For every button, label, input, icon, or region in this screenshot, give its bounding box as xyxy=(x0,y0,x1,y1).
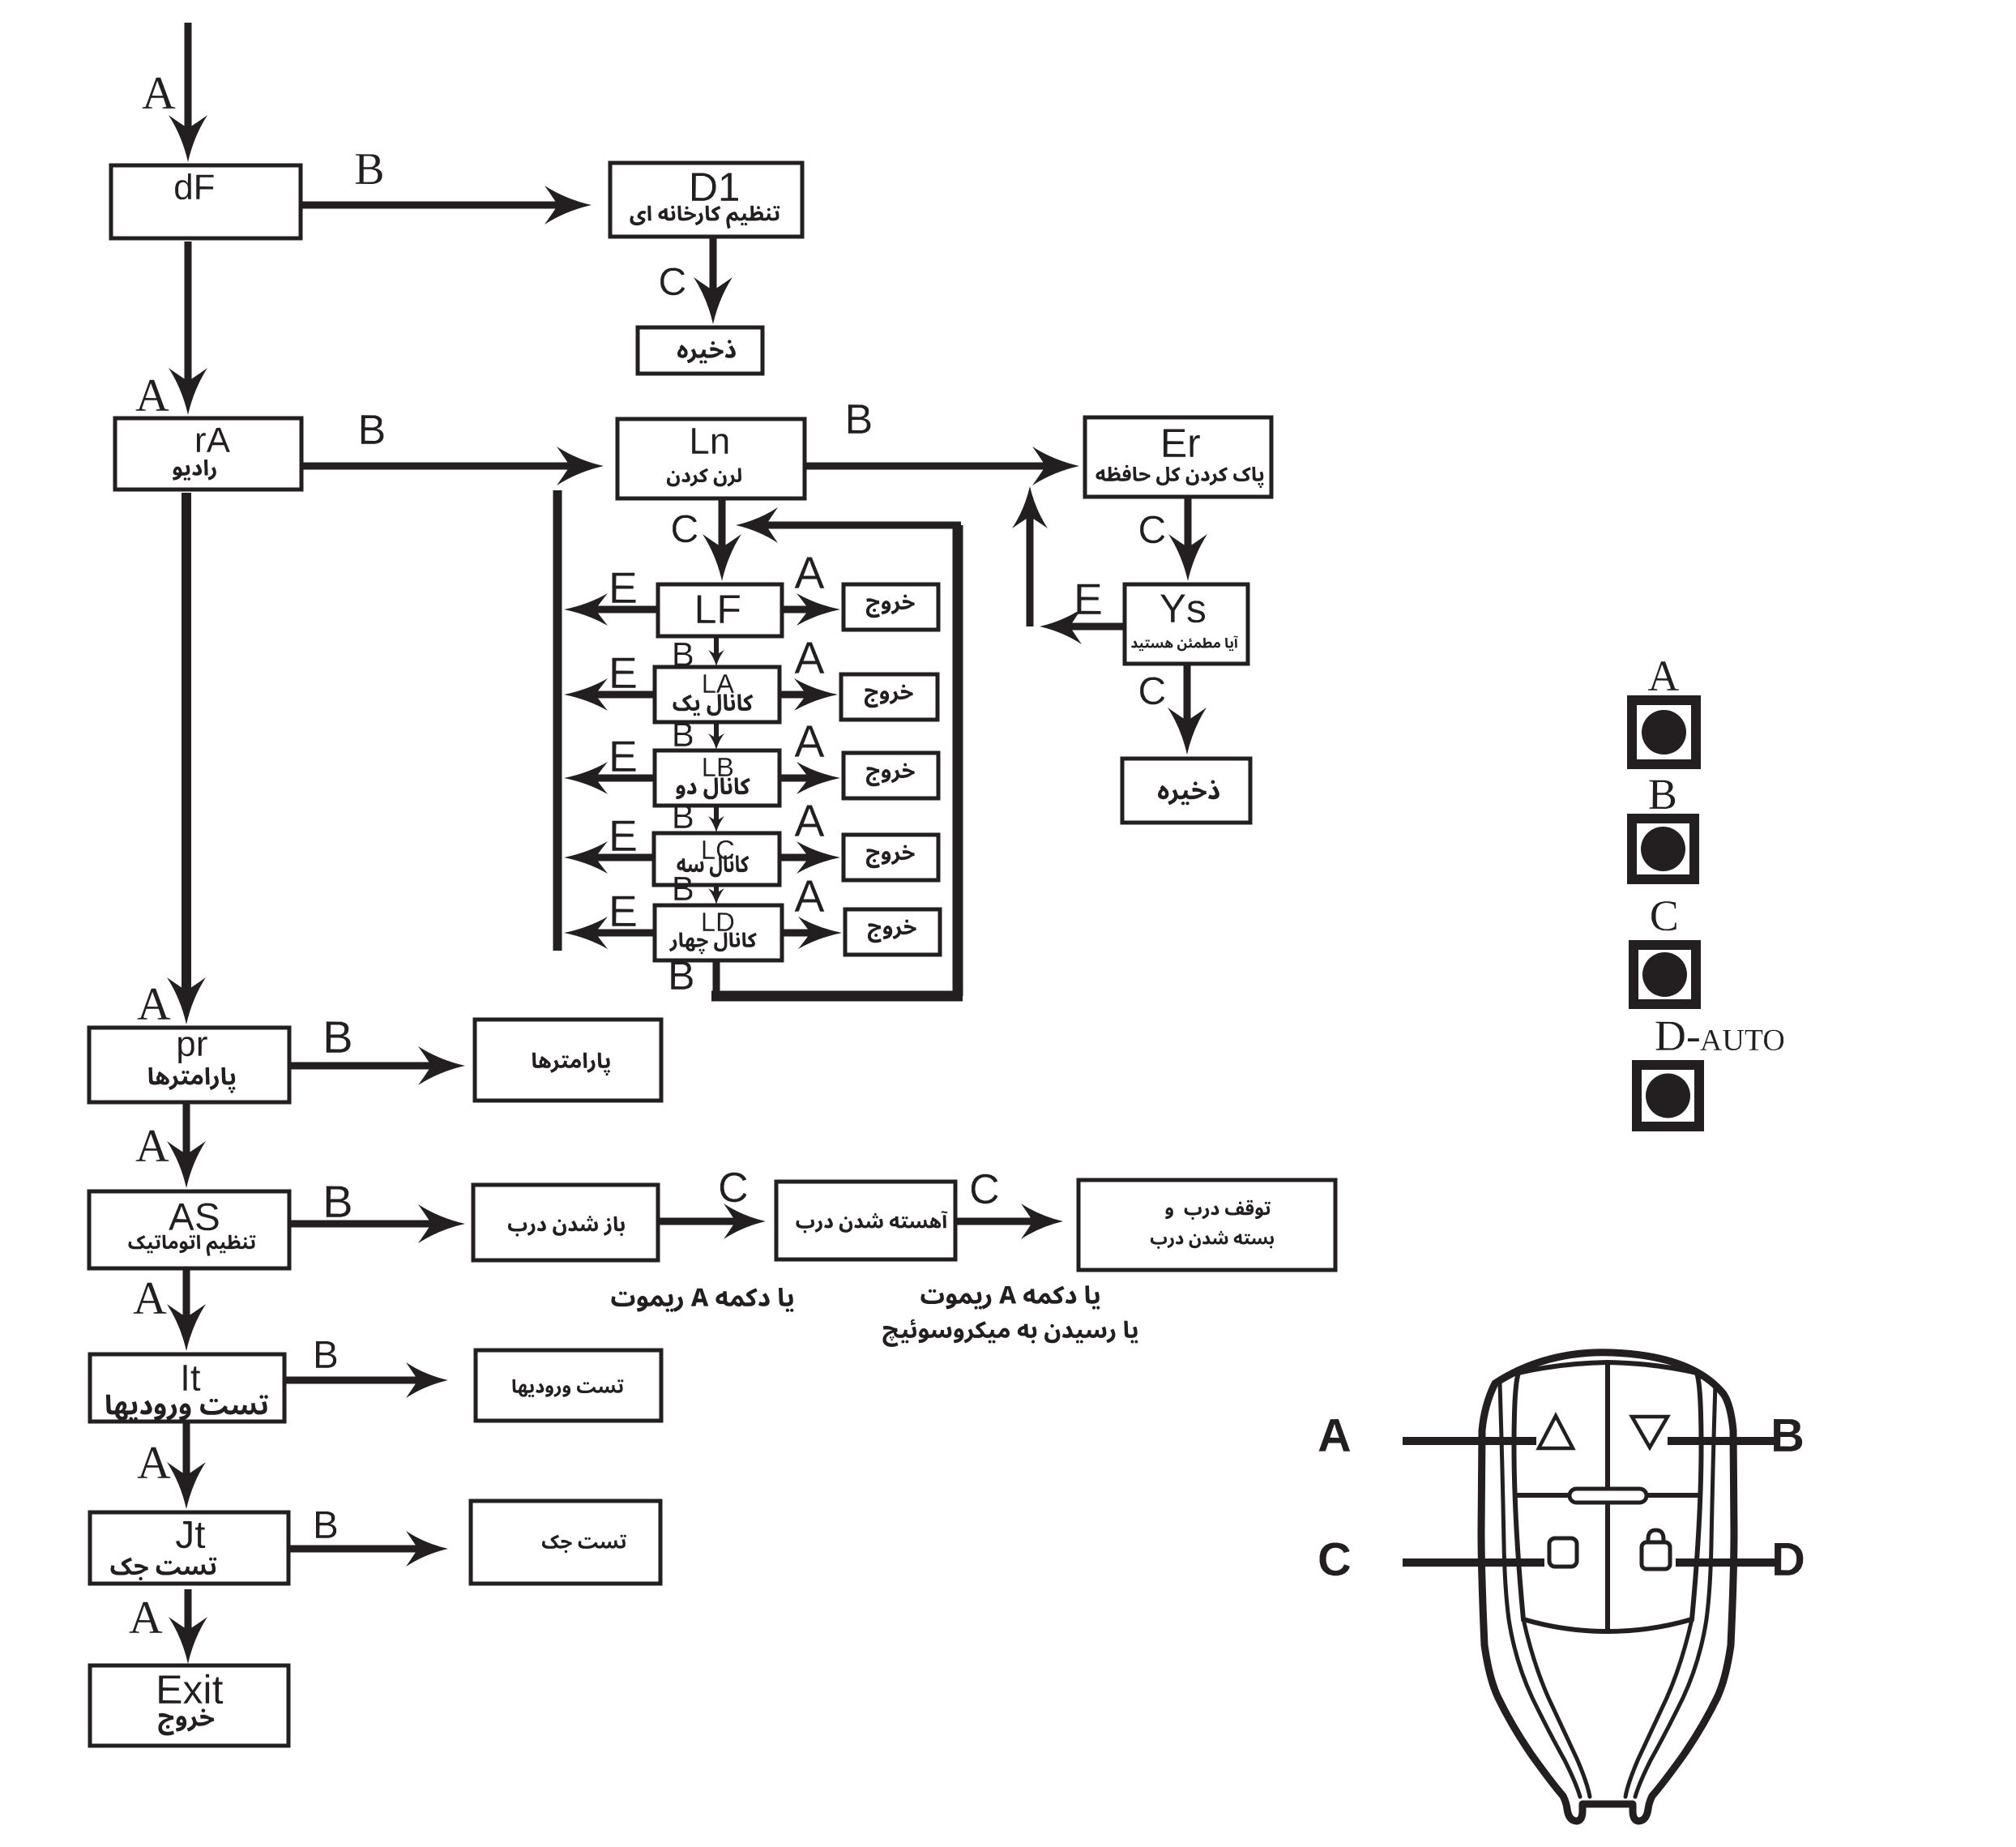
box LD xyxy=(655,905,782,960)
text AS farsi تنظیم اتوماتیک xyxy=(129,1235,256,1256)
wire B-loop bottom horizontal line xyxy=(711,991,963,1002)
label A pr->AS xyxy=(136,1131,169,1161)
remote label B xyxy=(1774,1419,1802,1452)
arrow Ln->Er (B) xyxy=(805,447,1079,485)
label A xyxy=(1648,661,1679,690)
text It xyxy=(184,1365,201,1391)
text open farsi باز شدن درب xyxy=(508,1216,625,1237)
text Jt farsi تست جک xyxy=(111,1558,217,1580)
arrow pr->AS (A) xyxy=(167,1102,206,1188)
text stop farsi line1 توقف درب و xyxy=(1165,1200,1271,1220)
label B LD loop xyxy=(671,962,692,990)
box LF xyxy=(658,584,782,636)
arrow start->dF (A) xyxy=(169,23,207,162)
box AS xyxy=(89,1191,289,1268)
remote button A triangle up xyxy=(1539,1416,1573,1448)
box Exit xyxy=(90,1665,288,1746)
box Ys xyxy=(1125,584,1248,664)
arrow AS->It (A) xyxy=(167,1268,206,1351)
remote label C xyxy=(1320,1543,1350,1576)
text save1 farsi ذخیره xyxy=(677,340,736,363)
text kharooj4 farsi خروج xyxy=(866,845,915,869)
label E LF xyxy=(613,573,636,603)
text LF xyxy=(698,596,740,623)
label B LA->LB xyxy=(675,723,693,746)
arrow LA A->kharooj xyxy=(779,678,838,711)
text AS xyxy=(169,1204,218,1231)
remote button pad xyxy=(1514,1362,1701,1631)
text LA farsi کانال یک xyxy=(673,695,754,716)
label B pr->params xyxy=(327,1022,351,1053)
button dot B xyxy=(1641,827,1685,871)
text jack farsi تست جک xyxy=(542,1535,626,1554)
box stop توقف درب xyxy=(1078,1180,1335,1270)
text pr xyxy=(178,1037,207,1063)
arrow LF A->kharooj xyxy=(782,593,840,626)
box save2 ذخیره xyxy=(1122,759,1250,823)
text Exit farsi خروج xyxy=(159,1708,215,1735)
wire right B-loop vertical line xyxy=(953,525,963,996)
text Exit xyxy=(159,1674,223,1704)
arrow dF->rA (A) xyxy=(169,242,207,415)
box pr xyxy=(89,1028,289,1102)
box Jt xyxy=(90,1512,288,1584)
arrow rA->pr (A) xyxy=(167,493,206,1024)
box save1 ذخیره xyxy=(638,327,762,374)
text save2 farsi ذخیره xyxy=(1158,780,1219,806)
label A LA xyxy=(795,643,825,673)
text Ys xyxy=(1160,595,1205,623)
caption2a farsi یا دکمه A ریموت xyxy=(921,1285,1100,1309)
box inputs تست ورودیها xyxy=(476,1350,661,1421)
box kharooj3 xyxy=(844,753,938,798)
arrow LD A->kharooj xyxy=(782,917,842,949)
arrow pr->params (B) xyxy=(289,1046,465,1085)
label A dF->rA xyxy=(136,380,169,411)
label B LB->LC xyxy=(675,805,693,828)
text rA xyxy=(197,428,230,452)
button dot A xyxy=(1642,710,1686,755)
label A LD xyxy=(795,881,825,912)
arrow LC E->collector xyxy=(564,841,654,874)
text kharooj5 farsi خروج xyxy=(868,920,916,943)
arrow LB->LC (B) small xyxy=(714,807,719,822)
label B Ln->Er xyxy=(848,404,871,434)
text D1 xyxy=(692,173,738,201)
box LC xyxy=(654,833,779,885)
caption2b farsi یا رسیدن به میکروسوئیچ xyxy=(883,1319,1138,1347)
label A LF xyxy=(795,558,825,588)
text kharooj2 farsi خروج xyxy=(865,685,913,708)
text inputs farsi تست ورودیها xyxy=(513,1379,624,1397)
arrow LC A->kharooj xyxy=(779,841,840,874)
text Ln xyxy=(692,428,728,454)
arrow Er->Ys (C) xyxy=(1168,497,1207,581)
text LB xyxy=(704,758,733,776)
text LC farsi کانال سه xyxy=(677,856,750,878)
arrow AS->open (B) xyxy=(289,1204,465,1243)
box jack تست جک xyxy=(471,1501,660,1584)
arrow LF E->collector xyxy=(564,593,658,626)
button square A xyxy=(1632,700,1696,764)
remote label A xyxy=(1319,1419,1351,1452)
text params farsi پارامترها xyxy=(532,1053,610,1076)
text Ln farsi لرن کردن xyxy=(667,468,741,487)
box params پارامترها xyxy=(475,1020,661,1101)
button square B xyxy=(1632,819,1694,879)
text slow farsi آهسته شدن درب xyxy=(797,1211,948,1233)
arrow LA->LB (B) small xyxy=(714,724,719,739)
box kharooj1 xyxy=(844,584,938,630)
box kharooj4 xyxy=(844,835,938,880)
text LA xyxy=(704,674,734,693)
label A top xyxy=(143,78,176,109)
arrow D1->save (C) xyxy=(694,237,733,324)
text LD farsi کانال چهار xyxy=(669,933,757,955)
arrow It->inputs (B) xyxy=(284,1362,448,1398)
text LB farsi کانال دو xyxy=(676,778,750,800)
box kharooj2 xyxy=(841,674,938,720)
remote callout line A xyxy=(1403,1437,1536,1445)
box LA xyxy=(655,667,779,722)
arrow rA->Ln (B) xyxy=(301,447,604,485)
label B Jt->jack xyxy=(316,1511,336,1538)
box slow آهسته شدن درب xyxy=(776,1182,955,1259)
arrow loop->C junction xyxy=(736,507,961,543)
text pr farsi پارامترها xyxy=(149,1067,236,1093)
remote button D lock xyxy=(1642,1542,1670,1569)
arrow LC->LD (B) small xyxy=(714,887,719,894)
text Ys farsi آیا مطمئن هستید xyxy=(1131,636,1238,652)
label A LC xyxy=(795,806,825,836)
text D1 farsi تنظیم کارخانه ای xyxy=(630,206,780,229)
label C Er->Ys xyxy=(1140,516,1164,544)
arrow LA E->collector xyxy=(564,678,655,711)
arrow Ys->save (C) xyxy=(1168,664,1207,755)
text Jt xyxy=(176,1521,205,1548)
text rA farsi رادیو xyxy=(173,460,216,481)
remote control outline xyxy=(1481,1353,1734,1821)
arrow Ln->LF (C) xyxy=(703,498,741,581)
wire left E-collector vertical line xyxy=(553,490,562,951)
label B LF->LA xyxy=(675,643,693,666)
label B It->inputs xyxy=(316,1341,336,1368)
label E LD xyxy=(613,896,636,926)
label C open->slow xyxy=(720,1173,746,1202)
button panel label D xyxy=(1656,1022,1784,1050)
arrow LF->LA (B) small xyxy=(714,638,719,656)
label E LB xyxy=(613,742,636,772)
text kharooj3 farsi خروج xyxy=(866,763,915,787)
label B AS->open xyxy=(327,1186,351,1217)
text Er farsi پاک کردن کل حافظه xyxy=(1096,465,1264,488)
label A AS->It xyxy=(134,1283,167,1314)
label C Ys->save xyxy=(1140,678,1164,705)
arrow Ys->E left xyxy=(1040,609,1125,644)
label C slow->stop xyxy=(972,1174,997,1204)
box D1 xyxy=(610,163,802,237)
button dot D xyxy=(1646,1074,1690,1118)
text LD xyxy=(703,913,734,931)
button dot C xyxy=(1642,952,1687,997)
label A LB xyxy=(795,726,825,757)
text Er xyxy=(1164,430,1200,457)
remote button C square xyxy=(1549,1538,1577,1567)
label B LC->LD xyxy=(675,877,693,900)
label A It->Jt xyxy=(138,1447,171,1478)
box LB xyxy=(655,750,779,806)
button square C xyxy=(1634,945,1696,1004)
box Er xyxy=(1085,417,1271,497)
remote button B triangle down xyxy=(1632,1417,1668,1447)
label A Jt->Exit xyxy=(130,1602,163,1633)
text kharooj1 farsi خروج xyxy=(866,595,915,618)
text LC xyxy=(703,840,734,859)
remote callout line B xyxy=(1668,1437,1777,1445)
box It xyxy=(90,1354,284,1422)
label C D1->save xyxy=(660,268,685,296)
label B xyxy=(1650,780,1676,809)
caption1 farsi یا دکمه A ریموت xyxy=(612,1288,794,1312)
remote pad pill slot xyxy=(1570,1489,1647,1503)
wire LD B down segment xyxy=(713,960,720,1001)
arrow Jt->jack (B) xyxy=(288,1531,448,1567)
arrow E up to Ln-Er line xyxy=(1012,486,1048,626)
label C xyxy=(1651,901,1676,930)
box kharooj5 xyxy=(845,909,940,955)
arrow Jt->Exit (A) xyxy=(169,1589,207,1664)
label E LC xyxy=(613,821,636,851)
arrow slow->stop (C) xyxy=(955,1204,1063,1239)
label C Ln->LF xyxy=(673,515,697,543)
box open باز شدن درب xyxy=(473,1185,658,1260)
box Ln xyxy=(617,419,805,498)
label A rA->pr xyxy=(138,989,171,1020)
label E LA xyxy=(613,658,636,688)
text It farsi تست ورودیها xyxy=(106,1395,268,1421)
arrow LB E->collector xyxy=(564,762,655,794)
arrow It->Jt (A) xyxy=(167,1422,206,1509)
label B rA->Ln xyxy=(361,415,384,444)
remote callout line C xyxy=(1403,1558,1544,1567)
arrow dF->D1 (B) xyxy=(301,186,592,224)
remote callout line D xyxy=(1676,1558,1777,1567)
label E Ys xyxy=(1078,584,1101,614)
arrow open->slow (C) xyxy=(658,1204,766,1239)
label B dF->D1 xyxy=(356,154,382,184)
text stop farsi line2 بسته شدن درب xyxy=(1151,1231,1274,1249)
box dF xyxy=(111,165,301,238)
remote label D xyxy=(1775,1543,1803,1576)
arrow LB A->kharooj xyxy=(779,762,840,794)
text dF xyxy=(175,173,214,199)
arrow LD E->collector xyxy=(564,917,655,949)
box rA xyxy=(115,418,301,490)
button square D xyxy=(1637,1065,1699,1127)
